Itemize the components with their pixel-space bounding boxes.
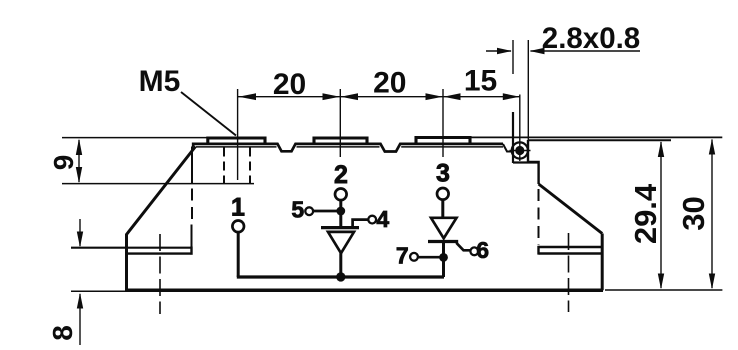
base bottom left extension xyxy=(71,290,127,292)
terminal 4 circle xyxy=(368,216,376,224)
29.4 dimension line xyxy=(660,142,662,288)
arrowhead dim9 down xyxy=(76,167,82,183)
right sloped edge xyxy=(539,184,603,234)
svg-text:3: 3 xyxy=(436,160,450,188)
right mounting slot top line xyxy=(539,246,603,248)
terminal 7 circle xyxy=(410,253,418,261)
hidden edge lower solid left xyxy=(191,225,193,248)
hidden edge line left (solid above) xyxy=(191,147,193,184)
svg-text:15: 15 xyxy=(464,65,497,98)
cathode bus wire xyxy=(237,275,444,278)
node junction dot at gate7 tap xyxy=(439,253,448,262)
extension line terminal 2 axis xyxy=(339,89,341,157)
svg-text:20: 20 xyxy=(373,67,406,100)
faston boss bottom ledge xyxy=(513,161,539,163)
wire thyristor2 to bus xyxy=(442,243,445,277)
svg-text:2.8x0.8: 2.8x0.8 xyxy=(542,22,640,55)
rivet horizontal crosshair xyxy=(510,150,531,152)
2.8 extension line right xyxy=(527,40,529,140)
2.8 extension line left xyxy=(512,40,514,74)
wire terminal2 to thyristor1 xyxy=(339,200,342,227)
arrowhead 29.4 top xyxy=(658,141,664,157)
arrowhead chain right at x340 xyxy=(323,93,340,100)
cap end chamfer to boss ledge xyxy=(503,144,513,152)
svg-text:4: 4 xyxy=(376,206,389,232)
thyristor Q2 cathode bar xyxy=(428,240,458,243)
left mounting hole centerline xyxy=(159,234,161,314)
faston boss left edge xyxy=(512,112,514,163)
svg-text:6: 6 xyxy=(476,237,489,263)
terminal 1 circle xyxy=(232,221,244,233)
wire to gate terminal 5 xyxy=(313,210,338,213)
wire to gate terminal 7 xyxy=(418,256,441,259)
M5 thread depth line xyxy=(62,183,254,185)
svg-text:30: 30 xyxy=(676,196,711,230)
thyristor Q1 anode bar xyxy=(321,226,359,229)
arrowhead dim8 up xyxy=(77,293,83,309)
arrowhead chain left at x238 xyxy=(238,93,256,100)
dimension 9 line xyxy=(78,140,80,182)
arrowhead 29.4 bottom xyxy=(658,274,664,290)
arrowhead 2.8 right xyxy=(530,48,545,54)
left mounting slot bottom line xyxy=(127,252,191,254)
2.8 dim right segment under text xyxy=(531,50,641,52)
svg-text:29.4: 29.4 xyxy=(628,183,663,244)
node junction dot at gate5 tap xyxy=(336,207,345,216)
M5 threaded hole hidden line left xyxy=(223,148,225,184)
thyristor Q1 triangle xyxy=(328,232,354,253)
terminal pad 3 xyxy=(416,138,470,145)
svg-text:5: 5 xyxy=(291,197,304,223)
right mounting slot bottom line xyxy=(539,252,603,254)
rivet circle xyxy=(512,142,528,158)
right mounting hole centerline xyxy=(568,233,570,312)
extension line terminal 1 axis xyxy=(237,89,239,180)
M5 leader line xyxy=(181,92,236,136)
wire to gate terminal 4 xyxy=(353,220,369,228)
svg-text:1: 1 xyxy=(231,194,245,222)
terminal 6 circle xyxy=(470,247,478,255)
faston tab top line xyxy=(470,136,722,138)
terminal pad 2 xyxy=(314,138,367,145)
rivet center dot xyxy=(515,146,524,155)
svg-text:M5: M5 xyxy=(139,65,181,98)
hidden edge dashes left xyxy=(191,189,193,220)
wire terminal1 down xyxy=(237,232,240,277)
top chain dimension line xyxy=(238,96,520,98)
M5 threaded hole hidden line right xyxy=(249,148,251,184)
bus junction dot xyxy=(336,272,345,281)
2.8 dim left segment xyxy=(486,50,511,52)
right slot left closure xyxy=(537,246,539,255)
extension line pad-top level left xyxy=(62,137,207,139)
bottom right extension line xyxy=(605,289,722,291)
module right edge xyxy=(601,234,604,291)
svg-text:7: 7 xyxy=(396,243,409,269)
terminal 3 circle xyxy=(437,188,449,200)
wire terminal3 to thyristor2 xyxy=(441,200,444,218)
thyristor Q2 triangle xyxy=(431,218,457,239)
left mounting slot top line with extension xyxy=(71,247,191,249)
dimension 8 upper line xyxy=(79,219,81,246)
svg-text:9: 9 xyxy=(48,155,79,171)
arrowhead chain right at x443 xyxy=(426,93,443,100)
arrowhead chain left at x443 xyxy=(443,93,460,100)
rivet vertical centerline from 15-dim arrow xyxy=(519,95,521,162)
wire to gate terminal 6 xyxy=(456,243,470,251)
wire thyristor1 to bus xyxy=(339,253,342,277)
arrowhead 30 top xyxy=(709,139,715,155)
arrowhead chain left at x340 xyxy=(341,93,358,100)
faston tab bottom line xyxy=(528,139,671,141)
hidden edge dashes right xyxy=(538,189,540,245)
30 dimension line xyxy=(711,140,713,289)
extension line terminal 3 axis xyxy=(442,89,444,157)
svg-text:8: 8 xyxy=(47,325,78,341)
svg-text:20: 20 xyxy=(273,68,306,101)
dimension 8 lower line xyxy=(79,294,81,345)
module cap lower seam line xyxy=(196,146,503,148)
arrowhead dim9 up xyxy=(76,139,82,156)
module cap top surface line with notches xyxy=(193,144,503,152)
module base bottom line xyxy=(127,289,604,293)
right bracket step under faston boss xyxy=(528,140,539,184)
left sloped edge of module body xyxy=(127,147,196,291)
terminal 5 circle xyxy=(305,207,313,215)
arrowhead 30 bottom xyxy=(709,274,715,290)
arrowhead dim8 down xyxy=(77,232,83,248)
svg-text:2: 2 xyxy=(334,161,348,189)
terminal pad 1 (M5 screw pad) xyxy=(208,138,265,145)
terminal 2 circle xyxy=(335,189,347,201)
arrowhead 2.8 left xyxy=(497,48,512,54)
arrowhead chain right at x519.8 xyxy=(503,93,520,100)
left slot right closure xyxy=(190,247,192,255)
